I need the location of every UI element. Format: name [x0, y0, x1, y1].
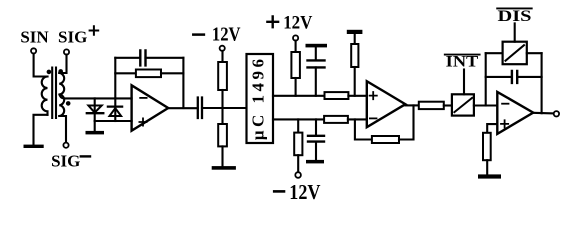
- wire C2 to mixer input: [202, 107, 247, 109]
- svg-text:SIG: SIG: [51, 152, 80, 171]
- ground diode rail: [94, 121, 96, 131]
- wire U1 output: [168, 107, 198, 109]
- ground R3: [212, 166, 236, 170]
- terminal +12V: [293, 35, 298, 40]
- wire mixer upper output rail: [273, 95, 325, 97]
- capacitor C2 coupling: [198, 98, 202, 119]
- node -12V lower label: [274, 190, 284, 193]
- terminal SIG-: [63, 143, 68, 148]
- svg-text:12V: 12V: [283, 13, 313, 34]
- wire U2 output: [405, 104, 418, 106]
- wire R10 to switch S1: [444, 104, 452, 106]
- capacitor C3: [308, 60, 325, 67]
- op-amp U1: [132, 85, 169, 130]
- resistor R1: [136, 70, 161, 78]
- wire U1 feedback right rail: [182, 58, 184, 108]
- ground capacitor C4: [306, 160, 324, 164]
- transformer T1 primary winding: [42, 77, 48, 115]
- resistor R4: [295, 41, 297, 52]
- wire lower rail to op-amp U2: [348, 118, 367, 120]
- capacitor C1: [140, 50, 145, 65]
- wire resistor R1 branch left: [115, 72, 136, 74]
- terminal -12V lower: [295, 172, 301, 178]
- ground R11: [478, 174, 501, 178]
- wire capacitor C5 branch right: [517, 76, 541, 78]
- node +12V label: [267, 16, 278, 27]
- op-amp U2: [367, 81, 406, 127]
- terminal SIG+: [64, 49, 69, 54]
- wire capacitor C5 branch left: [486, 76, 512, 78]
- wire S1 to op-amp U4: [474, 104, 497, 106]
- terminal -12V upper: [220, 46, 225, 51]
- wire mixer lower output rail: [273, 118, 324, 120]
- wire SIG+ to secondary top: [59, 55, 66, 73]
- wire to switch S2: [486, 52, 503, 54]
- wire diode rail to op-amp U1 non-inverting input: [95, 120, 132, 122]
- svg-text:μC 1496: μC 1496: [249, 55, 268, 140]
- wire S2 to right rail: [527, 52, 542, 54]
- terminal SIN: [31, 48, 36, 53]
- wire resistor R1 branch right: [161, 72, 183, 74]
- resistor R10: [419, 102, 444, 109]
- ground resistor R8 (flipped): [347, 30, 363, 34]
- wire U1 feedback left rail: [114, 58, 116, 99]
- resistor R9: [372, 136, 399, 143]
- phasing dot primary: [47, 70, 52, 75]
- wire S2 control: [514, 23, 516, 41]
- resistor R5: [297, 119, 299, 132]
- wire upper rail to op-amp U2: [348, 95, 366, 97]
- wire secondary tap to op-amp U1 inverting input: [59, 95, 131, 99]
- resistor R7: [324, 116, 348, 123]
- wire cap C1 branch left: [115, 57, 140, 59]
- transformer T1 secondary winding: [59, 73, 64, 116]
- ground primary: [24, 145, 44, 148]
- wire primary bottom to ground: [34, 115, 48, 144]
- wire U2 feedback: [355, 119, 372, 139]
- wire U4 output: [533, 112, 553, 115]
- resistor R6: [325, 92, 349, 99]
- op-amp U4: [497, 92, 533, 134]
- capacitor C4: [315, 119, 317, 135]
- ground capacitor C3 (flipped): [306, 44, 328, 48]
- terminal output: [554, 111, 559, 116]
- resistor R8: [351, 44, 358, 67]
- svg-text:INT: INT: [446, 54, 479, 71]
- svg-text:SIG: SIG: [58, 28, 87, 47]
- wire cap C1 branch right: [146, 57, 184, 59]
- switch S2 DIS: [503, 42, 527, 64]
- wire U4 feedback left rail: [485, 53, 487, 105]
- mixer U3 block: [247, 54, 274, 143]
- wire SIN to primary top: [34, 54, 48, 77]
- resistor R3: [221, 108, 223, 124]
- svg-text:12V: 12V: [289, 180, 320, 203]
- resistor R11: [483, 133, 491, 160]
- capacitor C5: [512, 71, 517, 83]
- wire secondary bottom to SIG-: [59, 116, 66, 142]
- wire U4 feedback right rail: [541, 53, 543, 113]
- svg-text:SIN: SIN: [20, 28, 49, 47]
- transformer T1 core: [52, 68, 56, 119]
- diode D2: [114, 98, 116, 121]
- diode D1: [94, 98, 96, 121]
- node -12V upper label: [193, 33, 204, 36]
- wire S1 control: [463, 70, 465, 95]
- phasing dot secondary tap: [66, 101, 71, 106]
- svg-text:12V: 12V: [212, 23, 241, 45]
- wire U4 non-inverting input: [487, 124, 497, 133]
- resistor R2: [221, 51, 223, 62]
- switch S1 INT: [452, 94, 474, 115]
- phasing dot secondary top: [58, 69, 63, 74]
